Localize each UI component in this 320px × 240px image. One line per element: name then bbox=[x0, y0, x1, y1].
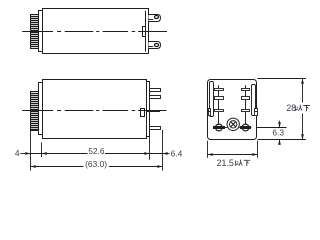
dimension 21.5以下 bbox=[208, 154, 258, 156]
front view left latch notches bbox=[209, 109, 211, 112]
front view right slot bbox=[252, 85, 256, 116]
glyph 以 (28以下) bbox=[295, 105, 302, 111]
side view centerline bbox=[22, 110, 53, 112]
glyph 下 (21.5以下) bbox=[244, 160, 251, 166]
extension line A (rib left) bbox=[30, 131, 32, 171]
top view upper quick-connect terminal bbox=[149, 15, 161, 22]
dimension 28以下 vertical line bbox=[302, 78, 304, 102]
front view body outline bbox=[208, 80, 257, 140]
glyph 下 (28以下) bbox=[303, 106, 310, 112]
svg-text:21.5: 21.5 bbox=[217, 158, 234, 168]
front view left screw terminal bbox=[213, 126, 225, 129]
front view left slot bbox=[210, 82, 214, 117]
svg-text:28: 28 bbox=[286, 103, 296, 113]
side view pin 1 bbox=[150, 89, 161, 92]
front view bottom extension lines bbox=[207, 141, 209, 158]
dimension 4 bbox=[20, 153, 30, 155]
top view collar flange bbox=[39, 11, 43, 52]
front view right latch notches bbox=[255, 109, 258, 112]
dimension (63.0) bbox=[30, 166, 83, 168]
svg-text:(63.0): (63.0) bbox=[85, 159, 107, 169]
side view end cap bbox=[147, 82, 150, 137]
top extension line (28以下) bbox=[257, 78, 306, 80]
svg-text:52.6: 52.6 bbox=[88, 146, 105, 156]
side view center pin (solid) bbox=[146, 110, 160, 112]
glyph 以 (21.5以下) bbox=[236, 160, 243, 166]
front view left pin column bbox=[218, 85, 220, 124]
front view slot line through terminals bbox=[213, 127, 227, 129]
slot reference line (6.3 upper) bbox=[257, 127, 287, 129]
side view pin 2 bbox=[150, 96, 161, 99]
knurled adjuster ribs bbox=[31, 92, 39, 131]
extension line B (body left) bbox=[41, 142, 43, 157]
top view lower quick-connect terminal bbox=[149, 42, 161, 49]
front view center light window bbox=[227, 118, 239, 130]
side view body outline bbox=[43, 80, 147, 139]
extension line D (pin tip) bbox=[162, 130, 164, 171]
knurled adjuster ribs bbox=[31, 15, 39, 49]
svg-text:4: 4 bbox=[15, 148, 20, 158]
bottom extension line bbox=[258, 139, 306, 141]
svg-text:6.4: 6.4 bbox=[171, 148, 183, 158]
svg-text:6.3: 6.3 bbox=[272, 127, 284, 137]
top view end-cap inner line bbox=[145, 11, 147, 52]
top view latch tab bbox=[143, 27, 146, 37]
dimension 6.3 bbox=[279, 121, 281, 128]
dimension 6.4 bbox=[163, 152, 168, 155]
side view pin 4 bbox=[150, 127, 161, 130]
extension line C (body right) bbox=[149, 131, 151, 160]
dimension 52.6 bbox=[30, 153, 87, 155]
side view latch tab bbox=[141, 109, 145, 117]
front view right pin column bbox=[245, 85, 247, 124]
side view collar flange bbox=[39, 83, 43, 135]
front view right screw terminal bbox=[240, 126, 251, 129]
top view body outline bbox=[43, 9, 149, 54]
top view centerline bbox=[22, 31, 53, 33]
